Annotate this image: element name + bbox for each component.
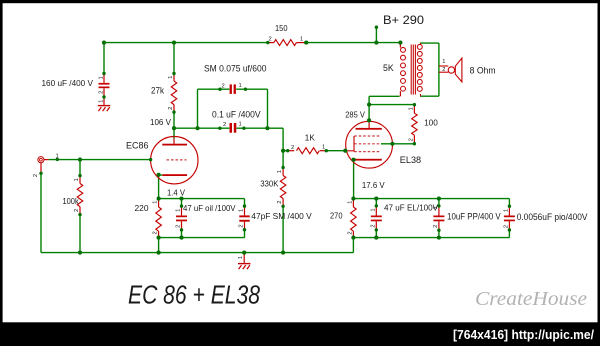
svg-text:1: 1 <box>503 209 509 212</box>
svg-text:1K: 1K <box>305 133 315 143</box>
svg-text:47pF SM /400 V: 47pF SM /400 V <box>251 212 312 221</box>
svg-text:106 V: 106 V <box>150 117 171 127</box>
svg-text:1: 1 <box>239 209 245 212</box>
svg-text:1: 1 <box>98 100 104 103</box>
svg-text:1: 1 <box>442 59 445 65</box>
svg-text:1: 1 <box>98 76 104 79</box>
svg-text:EL38: EL38 <box>400 155 421 166</box>
svg-text:10uF PP/400 V: 10uF PP/400 V <box>447 211 501 222</box>
svg-text:1: 1 <box>370 208 376 211</box>
svg-text:SM 0.075 uf/600: SM 0.075 uf/600 <box>204 64 267 74</box>
svg-text:2: 2 <box>176 225 182 228</box>
svg-text:CreateHouse: CreateHouse <box>475 288 587 310</box>
svg-text:1: 1 <box>347 201 353 204</box>
svg-text:2: 2 <box>442 67 445 73</box>
svg-text:1: 1 <box>176 209 182 212</box>
svg-text:160 uF /400 V: 160 uF /400 V <box>42 78 94 88</box>
svg-text:0.1 uF /400V: 0.1 uF /400V <box>212 110 261 121</box>
svg-text:220: 220 <box>135 203 149 213</box>
svg-text:1: 1 <box>238 256 244 259</box>
svg-text:[764x416] http://upic.me/: [764x416] http://upic.me/ <box>453 328 595 342</box>
svg-text:150: 150 <box>275 23 288 33</box>
svg-text:1: 1 <box>277 170 283 173</box>
svg-text:2: 2 <box>74 209 80 212</box>
svg-text:2: 2 <box>223 122 226 128</box>
svg-text:47 uF oil /100V: 47 uF oil /100V <box>183 204 236 213</box>
svg-text:2: 2 <box>291 145 294 151</box>
svg-text:27k: 27k <box>151 85 164 95</box>
svg-text:330K: 330K <box>260 178 279 188</box>
svg-text:1: 1 <box>239 83 242 89</box>
svg-text:2: 2 <box>408 138 414 141</box>
svg-text:1: 1 <box>168 76 174 79</box>
svg-text:100: 100 <box>424 118 438 128</box>
svg-text:2: 2 <box>239 224 245 227</box>
svg-text:2: 2 <box>98 91 104 94</box>
svg-text:2: 2 <box>433 225 439 228</box>
svg-text:1: 1 <box>322 145 325 151</box>
svg-text:1.4 V: 1.4 V <box>167 187 185 197</box>
svg-text:2: 2 <box>168 107 174 110</box>
svg-text:270: 270 <box>330 210 343 220</box>
svg-text:100k: 100k <box>63 196 80 206</box>
svg-text:17.6 V: 17.6 V <box>362 180 385 190</box>
svg-text:1: 1 <box>300 37 303 43</box>
svg-text:EC86: EC86 <box>126 141 149 152</box>
svg-text:1: 1 <box>74 178 80 181</box>
svg-text:2: 2 <box>222 84 225 90</box>
svg-text:0.0056uF pio/400V: 0.0056uF pio/400V <box>517 212 588 223</box>
svg-text:47 uF EL/100V: 47 uF EL/100V <box>384 204 439 213</box>
svg-text:2: 2 <box>370 224 376 227</box>
svg-text:285 V: 285 V <box>345 109 365 119</box>
svg-text:5K: 5K <box>383 63 394 74</box>
svg-text:2: 2 <box>153 231 159 234</box>
svg-text:EC 86 + EL38: EC 86 + EL38 <box>128 282 261 310</box>
svg-text:B+ 290: B+ 290 <box>383 13 424 27</box>
svg-text:2: 2 <box>503 225 509 228</box>
svg-text:1: 1 <box>408 107 414 110</box>
svg-text:2: 2 <box>347 231 353 234</box>
svg-text:1: 1 <box>153 201 159 204</box>
svg-text:2: 2 <box>277 200 283 203</box>
svg-text:2: 2 <box>33 174 39 177</box>
svg-text:1: 1 <box>433 206 439 209</box>
svg-text:1: 1 <box>239 122 242 128</box>
svg-text:2: 2 <box>269 37 272 43</box>
svg-text:1: 1 <box>56 153 59 159</box>
svg-text:8 Ohm: 8 Ohm <box>470 66 496 76</box>
